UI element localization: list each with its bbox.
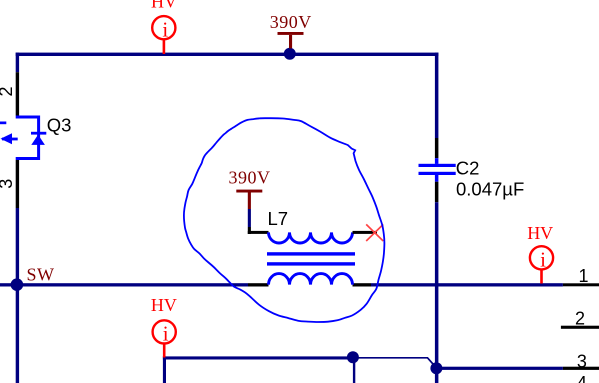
svg-text:3: 3 xyxy=(0,179,16,189)
svg-text:0.047µF: 0.047µF xyxy=(456,179,524,200)
svg-text:HV: HV xyxy=(151,0,177,11)
svg-text:i: i xyxy=(162,17,168,41)
svg-text:C2: C2 xyxy=(456,158,480,179)
svg-text:L7: L7 xyxy=(268,208,289,229)
svg-text:2: 2 xyxy=(0,86,16,96)
svg-text:2: 2 xyxy=(575,309,585,329)
svg-text:390V: 390V xyxy=(270,12,312,32)
svg-text:1: 1 xyxy=(578,266,588,286)
svg-text:390V: 390V xyxy=(229,167,271,187)
svg-text:Q3: Q3 xyxy=(47,114,72,135)
svg-text:HV: HV xyxy=(527,223,553,243)
svg-text:3: 3 xyxy=(577,351,587,371)
svg-text:4: 4 xyxy=(577,373,587,383)
svg-text:i: i xyxy=(163,322,169,346)
svg-text:SW: SW xyxy=(27,264,55,284)
svg-text:HV: HV xyxy=(151,295,177,315)
svg-text:i: i xyxy=(540,247,546,271)
